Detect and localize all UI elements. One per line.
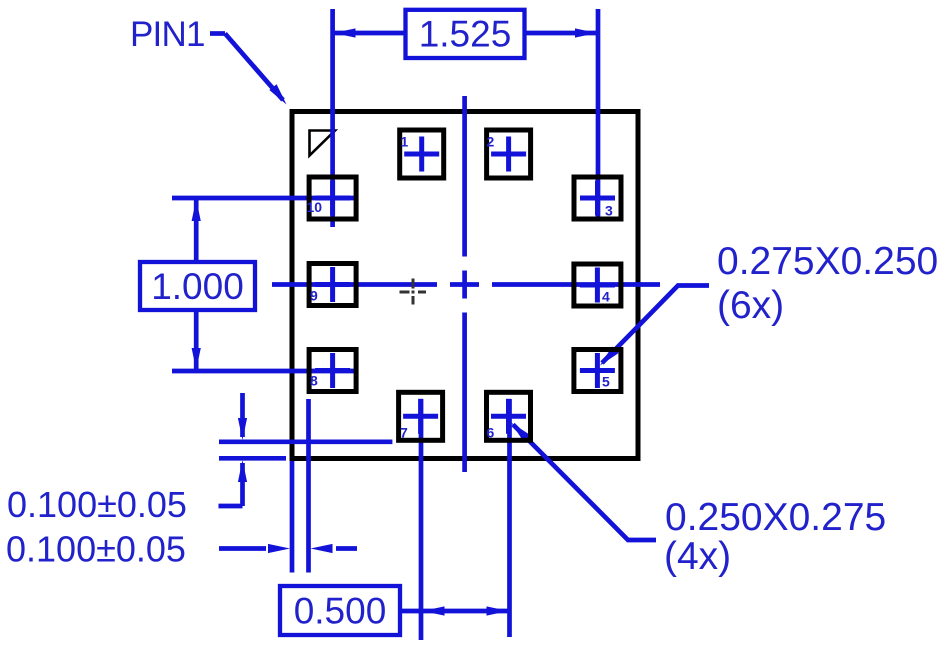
svg-text:9: 9: [310, 288, 318, 304]
svg-text:(6x): (6x): [717, 284, 784, 327]
svg-text:10: 10: [307, 199, 323, 215]
svg-text:3: 3: [605, 203, 613, 219]
svg-text:4: 4: [602, 289, 610, 305]
svg-text:1.525: 1.525: [419, 14, 512, 55]
svg-text:6: 6: [487, 425, 495, 441]
svg-text:5: 5: [602, 374, 610, 390]
svg-text:0.100±0.05: 0.100±0.05: [6, 529, 186, 570]
svg-text:0.275X0.250: 0.275X0.250: [717, 240, 938, 283]
svg-text:0.250X0.275: 0.250X0.275: [665, 496, 886, 539]
svg-text:1: 1: [401, 134, 409, 150]
svg-text:7: 7: [400, 425, 408, 441]
svg-text:8: 8: [310, 373, 318, 389]
svg-text:2: 2: [487, 134, 495, 150]
svg-text:(4x): (4x): [664, 535, 731, 578]
svg-text:1.000: 1.000: [151, 266, 244, 307]
svg-text:0.100±0.05: 0.100±0.05: [7, 484, 187, 525]
svg-text:PIN1: PIN1: [130, 15, 205, 54]
svg-text:0.500: 0.500: [294, 591, 387, 632]
